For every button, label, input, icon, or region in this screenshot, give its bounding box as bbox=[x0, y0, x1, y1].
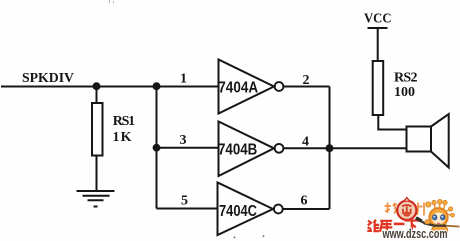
inverter U1C 7404C triangle bbox=[218, 183, 274, 236]
svg-text:3: 3 bbox=[180, 133, 187, 148]
inverter U1A output bubble bbox=[275, 82, 284, 91]
speaker driver box bbox=[407, 127, 432, 152]
watermark badge inner blob bbox=[403, 211, 410, 216]
watermark mascot right eye bbox=[441, 215, 445, 220]
watermark red text 下 bbox=[405, 221, 419, 232]
watermark mascot antenna stalks bbox=[434, 204, 451, 215]
watermark badge crown notch bbox=[404, 198, 409, 201]
watermark mascot left eye bbox=[433, 215, 437, 220]
wire: VCC lead to RS2 bbox=[377, 28, 379, 61]
node: junction at pin3 branch bbox=[153, 144, 161, 152]
ground symbol bbox=[77, 191, 115, 207]
speaker cone bbox=[431, 114, 449, 168]
svg-text:1: 1 bbox=[180, 72, 187, 87]
resistor RS2 body bbox=[373, 61, 384, 115]
wire: output bus vertical bbox=[329, 87, 331, 210]
watermark outline char 找 bbox=[385, 203, 399, 214]
watermark red badge circle bbox=[397, 201, 416, 220]
watermark mascot telescope stick bbox=[416, 218, 446, 226]
wire: SPKDIV input horizontal rail bbox=[1, 86, 218, 88]
watermark mascot hand on stick bbox=[425, 220, 430, 224]
inverter U1C output bubble bbox=[274, 205, 283, 214]
watermark mascot telescope far end bbox=[446, 225, 460, 228]
svg-text:VCC: VCC bbox=[364, 12, 392, 27]
watermark outline char 片 bbox=[417, 203, 424, 216]
svg-text:1K: 1K bbox=[113, 130, 132, 145]
watermark mascot eye glints bbox=[433, 216, 435, 218]
watermark red text 库 bbox=[380, 221, 392, 232]
watermark logo dzsc.com bbox=[367, 198, 459, 241]
watermark mascot telescope eyepiece bbox=[416, 218, 422, 221]
inverter U1A 7404A triangle bbox=[219, 60, 275, 114]
node: junction at RS1 top bbox=[93, 82, 101, 90]
watermark red text 一 bbox=[394, 223, 405, 226]
wire: RS1 bottom lead bbox=[96, 156, 98, 192]
svg-text:www.dzsc.com: www.dzsc.com bbox=[382, 227, 448, 241]
scan speck near triangle C base bbox=[234, 237, 236, 239]
watermark mascot raised hand ball bbox=[426, 202, 431, 207]
wire: bus to speaker bbox=[330, 147, 407, 149]
svg-text:7404B: 7404B bbox=[218, 141, 257, 158]
svg-text:RS2: RS2 bbox=[394, 71, 418, 86]
watermark mascot face bbox=[432, 213, 445, 225]
svg-text:4: 4 bbox=[302, 135, 309, 150]
watermark mascot head bbox=[429, 208, 447, 226]
svg-text:7404A: 7404A bbox=[218, 80, 258, 97]
wire: pin 4 output line bbox=[284, 147, 330, 149]
wire: pin 2 output line bbox=[284, 86, 330, 88]
wire: RS1 top lead bbox=[96, 87, 98, 104]
watermark mascot antenna balls bbox=[432, 200, 455, 218]
scan speck right of triangle C bbox=[263, 235, 265, 237]
node: junction at output bus bbox=[326, 144, 334, 152]
inverter U1B 7404B triangle bbox=[219, 122, 275, 177]
scan speck top edge bbox=[110, 0, 114, 4]
watermark badge inner art bbox=[402, 205, 412, 214]
inverter U1B output bubble bbox=[275, 144, 284, 153]
svg-text:SPKDIV: SPKDIV bbox=[22, 71, 74, 86]
VCC terminal bar bbox=[368, 27, 388, 29]
wire: RS2 bottom lead to speaker bbox=[378, 115, 406, 130]
watermark red text 维 bbox=[367, 220, 379, 232]
wire: pin 5 input line bbox=[157, 208, 218, 210]
resistor RS1 body bbox=[92, 103, 103, 156]
svg-text:5: 5 bbox=[181, 194, 188, 209]
wire: pin 3 input line bbox=[157, 147, 219, 149]
node: junction at vertical branch bbox=[153, 82, 161, 90]
wire: vertical branch bus bbox=[156, 87, 158, 209]
svg-text:RS1: RS1 bbox=[113, 114, 135, 129]
svg-text:6: 6 bbox=[301, 194, 308, 209]
svg-text:7404C: 7404C bbox=[219, 203, 257, 220]
svg-text:2: 2 bbox=[303, 73, 310, 88]
watermark mascot body bbox=[432, 226, 448, 237]
wire: pin 6 output line bbox=[283, 208, 330, 210]
watermark mascot mouth bbox=[437, 222, 440, 225]
svg-text:100: 100 bbox=[394, 85, 415, 100]
